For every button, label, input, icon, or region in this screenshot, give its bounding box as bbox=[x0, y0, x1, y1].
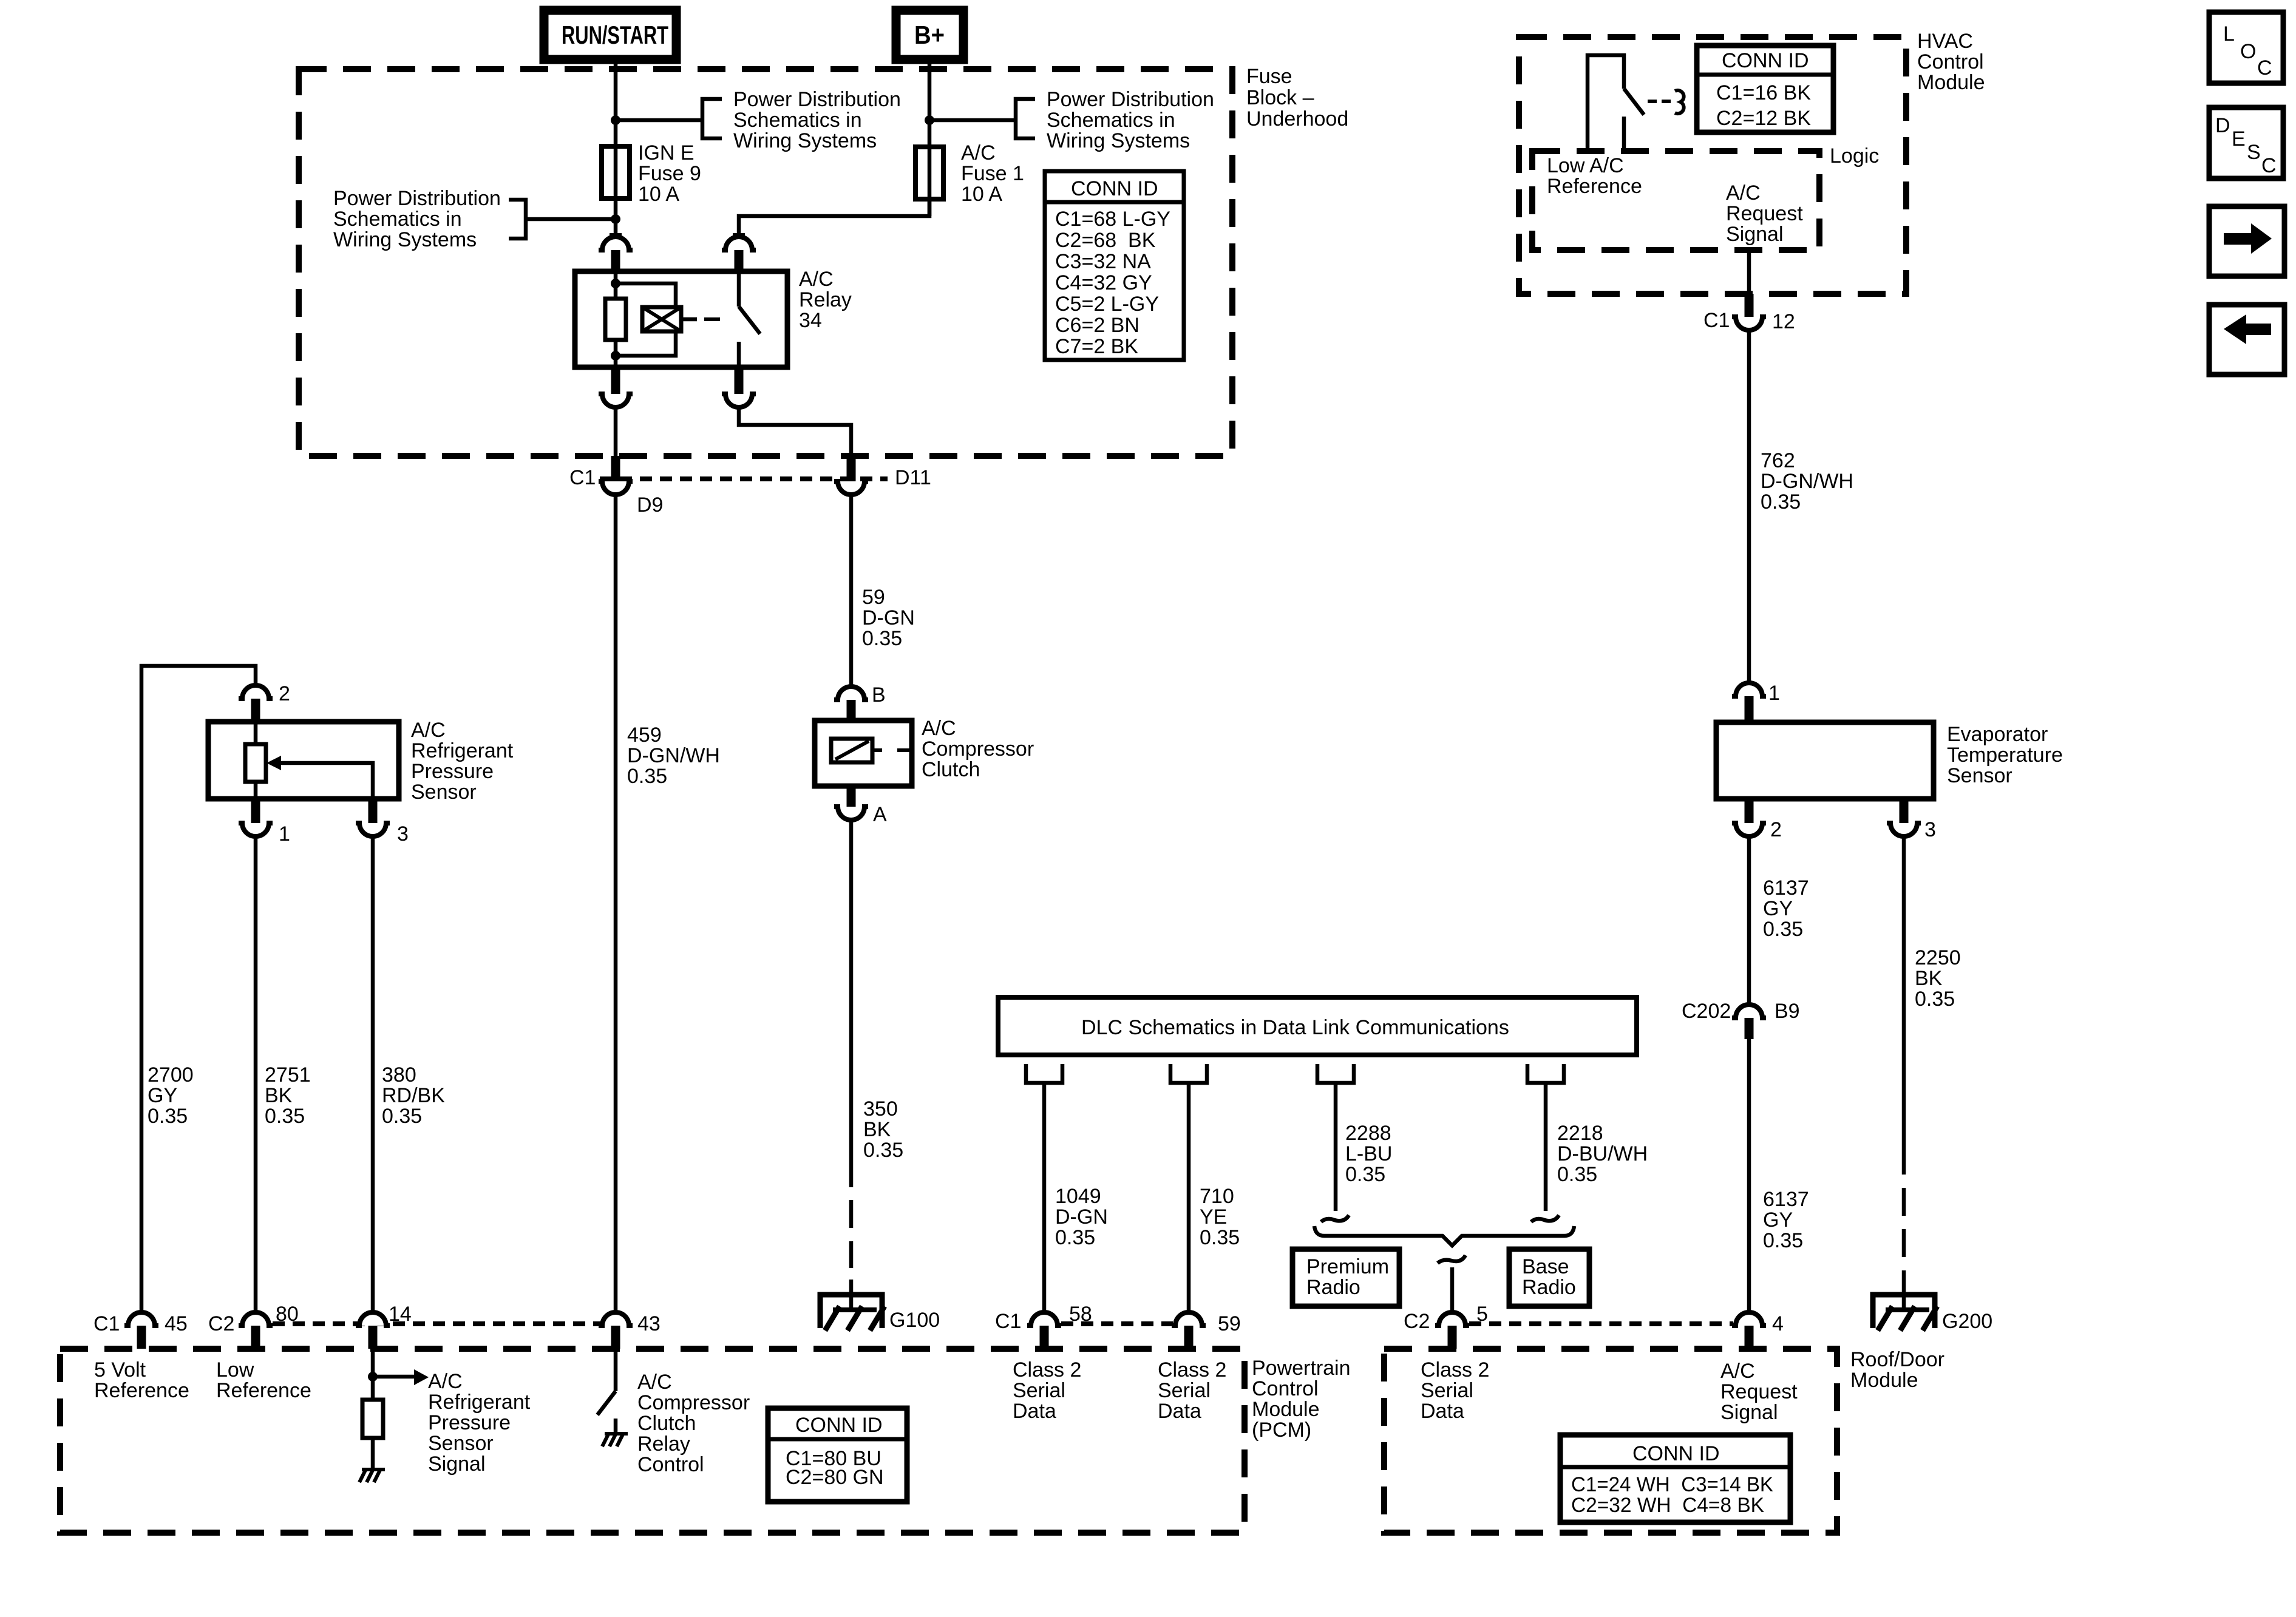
relay pin stub (coil ground out) bbox=[611, 367, 620, 394]
svg-text:Data: Data bbox=[1158, 1400, 1201, 1423]
wire resistor to internal ground bbox=[371, 1438, 375, 1468]
wire branch to power distribution reference (right) bbox=[929, 118, 1016, 123]
svg-text:C2: C2 bbox=[208, 1312, 234, 1335]
connector C1 dotted line bbox=[600, 476, 888, 481]
svg-text:59: 59 bbox=[1218, 1312, 1241, 1335]
roof/door module dashed box bbox=[1384, 1349, 1837, 1533]
wire 350 BK into G100 bbox=[849, 1280, 854, 1310]
clutch coil symbol bbox=[831, 739, 872, 762]
wire splice to roof/door module pin 5 bbox=[1450, 1267, 1455, 1310]
relay actuator link dash bbox=[704, 317, 720, 321]
svg-text:14: 14 bbox=[389, 1303, 412, 1326]
wire 380 RD/BK to PCM pin 14 bbox=[371, 836, 375, 1310]
svg-text:Base: Base bbox=[1522, 1255, 1569, 1278]
wire 59 D-GN to compressor clutch bbox=[849, 494, 854, 685]
pin 59 stub bbox=[1184, 1326, 1194, 1349]
wire 6137 GY to C202 bbox=[1747, 836, 1751, 1003]
pressure sensor signal branch bbox=[281, 763, 373, 799]
svg-text:Data: Data bbox=[1013, 1400, 1056, 1423]
svg-text:Block –: Block – bbox=[1246, 86, 1314, 109]
pin 43 stub bbox=[611, 1326, 620, 1349]
svg-text:0.35: 0.35 bbox=[1763, 1229, 1803, 1252]
switch actuator curl bbox=[1675, 90, 1684, 114]
wire 710 YE to PCM pin 59 bbox=[1187, 1085, 1191, 1310]
svg-text:Schematics in: Schematics in bbox=[333, 208, 462, 231]
wire 2288 L-BU from DLC bbox=[1334, 1085, 1338, 1211]
svg-text:45: 45 bbox=[165, 1312, 188, 1335]
svg-text:A/C: A/C bbox=[637, 1371, 672, 1394]
svg-text:12: 12 bbox=[1772, 310, 1795, 333]
svg-text:Fuse 1: Fuse 1 bbox=[961, 162, 1024, 185]
svg-text:Sensor: Sensor bbox=[411, 781, 477, 804]
DLC stub 2 bbox=[1170, 1064, 1207, 1083]
wire B+ feed to A/C fuse bbox=[928, 59, 932, 216]
svg-text:5 Volt: 5 Volt bbox=[94, 1358, 146, 1381]
svg-text:1: 1 bbox=[1768, 682, 1780, 705]
wire pin 43 internal bbox=[614, 1349, 618, 1391]
svg-text:G100: G100 bbox=[889, 1309, 940, 1332]
svg-text:0.35: 0.35 bbox=[148, 1105, 188, 1128]
svg-text:Module: Module bbox=[1917, 71, 1985, 94]
svg-text:0.35: 0.35 bbox=[1345, 1163, 1385, 1186]
svg-text:GY: GY bbox=[1763, 1209, 1793, 1232]
pressure sensor wiper bottom bbox=[254, 782, 258, 799]
svg-text:Radio: Radio bbox=[1306, 1276, 1360, 1299]
svg-text:Pressure: Pressure bbox=[428, 1411, 511, 1434]
svg-text:Class 2: Class 2 bbox=[1421, 1358, 1489, 1381]
evaporator sensor pin 3 stub bbox=[1900, 799, 1909, 823]
svg-text:Schematics in: Schematics in bbox=[1047, 109, 1175, 132]
svg-text:710: 710 bbox=[1200, 1185, 1234, 1208]
svg-text:Fuse 9: Fuse 9 bbox=[638, 162, 701, 185]
pin 5 stub bbox=[1448, 1326, 1457, 1349]
connector arc relay coil supply bbox=[599, 237, 633, 250]
svg-text:O: O bbox=[2240, 40, 2256, 63]
junction relay coil bottom bbox=[611, 351, 620, 361]
svg-text:D-GN: D-GN bbox=[1055, 1205, 1108, 1229]
svg-text:6137: 6137 bbox=[1763, 876, 1809, 900]
svg-text:380: 380 bbox=[382, 1063, 416, 1086]
base radio box bbox=[1509, 1249, 1589, 1306]
svg-text:GY: GY bbox=[148, 1084, 177, 1107]
pin 80 stub bbox=[251, 1326, 260, 1349]
svg-text:Reference: Reference bbox=[216, 1379, 311, 1402]
svg-text:Reference: Reference bbox=[94, 1379, 189, 1402]
evaporator temperature sensor box bbox=[1716, 722, 1934, 799]
svg-text:1049: 1049 bbox=[1055, 1185, 1101, 1208]
svg-text:10 A: 10 A bbox=[638, 183, 679, 206]
svg-text:C1=24 WH C3=14 BK: C1=24 WH C3=14 BK bbox=[1571, 1473, 1773, 1496]
svg-text:BK: BK bbox=[863, 1118, 891, 1141]
junction on RUN/START feed bbox=[611, 115, 620, 125]
svg-text:2: 2 bbox=[279, 682, 290, 705]
connector arc evaporator sensor pin 3 bbox=[1887, 823, 1921, 836]
svg-text:Refrigerant: Refrigerant bbox=[428, 1391, 531, 1414]
relay pin stub (switch supply) bbox=[735, 250, 744, 271]
svg-text:Compressor: Compressor bbox=[637, 1391, 750, 1414]
connector dotted line PCM C1 (58-59) bbox=[1061, 1321, 1173, 1326]
svg-text:RD/BK: RD/BK bbox=[382, 1084, 445, 1107]
svg-text:5: 5 bbox=[1476, 1303, 1488, 1326]
relay switch blade bbox=[739, 307, 760, 334]
bracket power distribution reference (left) bbox=[509, 200, 526, 239]
junction below IGN E fuse bbox=[611, 214, 620, 224]
svg-text:C2=68 BK: C2=68 BK bbox=[1055, 229, 1156, 252]
connector arc clutch pin A bbox=[834, 807, 868, 820]
wire pin 14 internal bbox=[371, 1349, 375, 1400]
internal ground (pin 14) bbox=[362, 1468, 385, 1471]
svg-text:Clutch: Clutch bbox=[922, 758, 980, 781]
wire 2250 BK dash 2 bbox=[1902, 1229, 1906, 1257]
wire relay coil output to fuse block edge bbox=[614, 407, 618, 456]
svg-text:Schematics in: Schematics in bbox=[733, 109, 862, 132]
wire 762 D-GN/WH to evaporator sensor bbox=[1747, 330, 1751, 682]
connector arc pin 4 bbox=[1732, 1312, 1766, 1326]
svg-text:C1: C1 bbox=[93, 1312, 120, 1335]
connector arc pressure sensor pin 1 bbox=[239, 823, 273, 836]
svg-text:Roof/Door: Roof/Door bbox=[1850, 1348, 1944, 1371]
bracket power distribution reference (right) bbox=[1016, 99, 1035, 138]
relay coil (crossed box) bbox=[642, 307, 681, 331]
premium radio box bbox=[1292, 1249, 1399, 1306]
wire RUN/START feed to IGN E fuse bbox=[614, 59, 618, 235]
sensor signal arrow bbox=[414, 1369, 429, 1385]
fuse block - underhood dashed box bbox=[299, 69, 1232, 456]
svg-text:Power Distribution: Power Distribution bbox=[1047, 88, 1214, 111]
wire 2700 GY to pressure sensor pin 2 bbox=[141, 666, 256, 1310]
svg-text:Signal: Signal bbox=[1720, 1401, 1778, 1424]
svg-text:Reference: Reference bbox=[1547, 175, 1642, 198]
svg-text:0.35: 0.35 bbox=[1915, 988, 1955, 1011]
svg-text:S: S bbox=[2247, 141, 2261, 164]
wire 2751 BK to PCM pin 80 bbox=[254, 836, 258, 1310]
legend DESC box bbox=[2209, 107, 2283, 178]
svg-text:D11: D11 bbox=[895, 466, 931, 489]
svg-text:0.35: 0.35 bbox=[265, 1105, 305, 1128]
svg-text:C1=16 BK: C1=16 BK bbox=[1716, 81, 1811, 104]
pressure sensor wiper top bbox=[254, 722, 258, 744]
svg-text:80: 80 bbox=[276, 1303, 299, 1326]
svg-text:Request: Request bbox=[1726, 202, 1803, 225]
svg-text:0.35: 0.35 bbox=[1557, 1163, 1597, 1186]
wire 459 D-GN/WH to PCM pin 43 bbox=[614, 494, 618, 1310]
svg-text:Powertrain: Powertrain bbox=[1252, 1357, 1351, 1380]
svg-text:Data: Data bbox=[1421, 1400, 1464, 1423]
svg-text:G200: G200 bbox=[1942, 1310, 1992, 1333]
svg-text:1: 1 bbox=[279, 822, 290, 846]
svg-text:0.35: 0.35 bbox=[627, 765, 667, 788]
wire relay coil branch bottom bbox=[616, 331, 676, 356]
pressure sensor pin 3 stub bbox=[369, 799, 378, 823]
svg-text:C3=32 NA: C3=32 NA bbox=[1055, 250, 1151, 273]
svg-text:C202: C202 bbox=[1682, 1000, 1731, 1023]
svg-text:2751: 2751 bbox=[265, 1063, 311, 1086]
svg-text:Evaporator: Evaporator bbox=[1947, 723, 2048, 746]
svg-text:Premium: Premium bbox=[1306, 1255, 1389, 1278]
svg-text:Low A/C: Low A/C bbox=[1547, 154, 1624, 177]
wire branch to power distribution reference (left) bbox=[526, 217, 616, 222]
svg-text:Sensor: Sensor bbox=[428, 1432, 494, 1455]
svg-text:Temperature: Temperature bbox=[1947, 744, 2063, 767]
wire relay coil top bbox=[614, 271, 618, 299]
svg-text:A: A bbox=[873, 803, 887, 826]
ground G200 bbox=[1873, 1295, 1935, 1328]
svg-text:Refrigerant: Refrigerant bbox=[411, 739, 514, 762]
svg-text:C4=32 GY: C4=32 GY bbox=[1055, 271, 1152, 294]
svg-text:CONN ID: CONN ID bbox=[1071, 177, 1158, 200]
svg-text:RUN/START: RUN/START bbox=[562, 21, 668, 49]
junction relay coil top bbox=[611, 279, 620, 288]
relay actuator link bbox=[681, 317, 697, 322]
connector arc evaporator sensor pin 1 bbox=[1732, 683, 1766, 696]
svg-text:C2=80 GN: C2=80 GN bbox=[786, 1466, 884, 1489]
svg-text:C2=12 BK: C2=12 BK bbox=[1716, 107, 1811, 130]
HVAC control module dashed box bbox=[1519, 37, 1906, 294]
svg-text:BK: BK bbox=[1915, 967, 1943, 990]
pin 14 stub bbox=[369, 1326, 378, 1349]
pin 58 stub bbox=[1040, 1326, 1049, 1349]
connector arc pin 5 bbox=[1435, 1312, 1469, 1326]
bracket power distribution reference (top middle) bbox=[702, 99, 722, 138]
A/C compressor clutch box bbox=[815, 720, 912, 786]
pin 4 stub bbox=[1745, 1326, 1754, 1349]
driver switch blade (pin 43) bbox=[597, 1391, 616, 1415]
svg-text:6137: 6137 bbox=[1763, 1188, 1809, 1211]
power tab B+ bbox=[896, 10, 963, 59]
svg-text:IGN E: IGN E bbox=[638, 141, 695, 164]
connector arc evaporator sensor pin 2 bbox=[1732, 823, 1766, 836]
svg-text:762: 762 bbox=[1761, 449, 1795, 472]
svg-text:Clutch: Clutch bbox=[637, 1412, 696, 1435]
wire 2218 D-BU/WH from DLC bbox=[1544, 1085, 1548, 1211]
HVAC A/C switch bbox=[1588, 55, 1624, 149]
connector ID table (fuse block) bbox=[1045, 171, 1184, 360]
svg-text:B9: B9 bbox=[1775, 1000, 1800, 1023]
resistor PCM pull-down bbox=[362, 1400, 383, 1438]
wire relay switch fixed contact bbox=[737, 271, 741, 307]
wire switch to internal ground bbox=[614, 1419, 618, 1432]
svg-text:CONN ID: CONN ID bbox=[1722, 49, 1809, 72]
svg-text:C: C bbox=[2257, 56, 2272, 80]
fuse F1 A/C bbox=[915, 147, 943, 199]
svg-text:D-GN: D-GN bbox=[862, 606, 915, 629]
wire relay switch output contact bbox=[737, 342, 741, 367]
connector ID table (HVAC) bbox=[1697, 46, 1833, 132]
svg-text:HVAC: HVAC bbox=[1917, 30, 1973, 53]
svg-text:DLC Schematics in Data Link Co: DLC Schematics in Data Link Communicatio… bbox=[1081, 1016, 1509, 1039]
svg-text:BK: BK bbox=[265, 1084, 293, 1107]
svg-text:Sensor: Sensor bbox=[1947, 764, 2012, 787]
svg-text:0.35: 0.35 bbox=[863, 1139, 903, 1162]
relay K34 A/C Relay box bbox=[575, 271, 787, 367]
relay pin stub (coil supply) bbox=[611, 250, 620, 271]
svg-text:Wiring Systems: Wiring Systems bbox=[733, 129, 877, 152]
svg-text:Relay: Relay bbox=[637, 1432, 690, 1456]
internal ground (pin 43) bbox=[605, 1432, 628, 1436]
svg-text:0.35: 0.35 bbox=[1200, 1226, 1240, 1249]
svg-text:0.35: 0.35 bbox=[1763, 918, 1803, 941]
connector dotted line PCM C1/C2 bbox=[273, 1321, 600, 1326]
svg-text:D-GN/WH: D-GN/WH bbox=[627, 744, 720, 767]
svg-text:Control: Control bbox=[637, 1453, 704, 1476]
svg-text:350: 350 bbox=[863, 1097, 898, 1120]
stub into C1 pin D11 bbox=[847, 456, 856, 481]
svg-text:Wiring Systems: Wiring Systems bbox=[333, 228, 477, 251]
svg-text:C5=2 L-GY: C5=2 L-GY bbox=[1055, 293, 1159, 316]
pressure sensor pin 1 stub bbox=[251, 799, 260, 823]
wire 2250 BK from evaporator sensor bbox=[1902, 836, 1906, 1175]
wire relay coil branch top bbox=[616, 283, 676, 307]
svg-text:A/C: A/C bbox=[799, 268, 834, 291]
DLC stub 1 bbox=[1026, 1064, 1062, 1083]
svg-text:Low: Low bbox=[216, 1358, 254, 1381]
svg-text:10 A: 10 A bbox=[961, 183, 1002, 206]
svg-text:Radio: Radio bbox=[1522, 1276, 1576, 1299]
relay pin stub (switch out) bbox=[735, 367, 744, 394]
svg-text:34: 34 bbox=[799, 309, 822, 332]
C202 pin B9 stub bbox=[1745, 1018, 1754, 1039]
svg-text:E: E bbox=[2232, 127, 2246, 151]
connector ID table (PCM) bbox=[768, 1408, 907, 1502]
svg-text:459: 459 bbox=[627, 724, 662, 747]
legend back arrow box bbox=[2209, 305, 2284, 375]
connector arc pin 80 bbox=[239, 1312, 273, 1326]
svg-text:0.35: 0.35 bbox=[1055, 1226, 1095, 1249]
svg-text:D: D bbox=[2215, 114, 2230, 137]
svg-text:A/C: A/C bbox=[428, 1370, 463, 1393]
resistor in relay bbox=[605, 299, 626, 340]
connector arc pin 58 bbox=[1027, 1312, 1061, 1326]
splice center hook bbox=[1438, 1255, 1466, 1263]
svg-text:0.35: 0.35 bbox=[382, 1105, 422, 1128]
svg-text:Power Distribution: Power Distribution bbox=[333, 187, 501, 210]
svg-text:C1: C1 bbox=[1703, 309, 1730, 332]
wire 2250 BK into G200 bbox=[1902, 1270, 1906, 1310]
wire to sensor signal arrow bbox=[373, 1375, 414, 1379]
svg-text:Signal: Signal bbox=[1726, 223, 1784, 246]
svg-text:C1=68 L-GY: C1=68 L-GY bbox=[1055, 208, 1170, 231]
svg-text:2250: 2250 bbox=[1915, 946, 1961, 969]
svg-text:C1: C1 bbox=[995, 1310, 1021, 1333]
svg-text:C2=32 WH C4=8 BK: C2=32 WH C4=8 BK bbox=[1571, 1494, 1764, 1517]
svg-text:A/C: A/C bbox=[411, 719, 446, 742]
HVAC logic dashed box bbox=[1532, 151, 1819, 250]
wire 2288 end hook bbox=[1321, 1215, 1349, 1222]
svg-text:Class 2: Class 2 bbox=[1158, 1358, 1226, 1381]
svg-text:Wiring Systems: Wiring Systems bbox=[1047, 129, 1190, 152]
connector arc pressure sensor pin 3 bbox=[356, 823, 390, 836]
svg-text:B: B bbox=[872, 683, 886, 707]
connector ID table (roof/door) bbox=[1560, 1435, 1790, 1522]
svg-text:Serial: Serial bbox=[1013, 1379, 1065, 1402]
HVAC pin 12 stub bbox=[1745, 294, 1754, 317]
DLC stub 3 bbox=[1317, 1064, 1354, 1083]
connector arc pin 45 bbox=[124, 1312, 158, 1326]
evaporator sensor pin 1 stub bbox=[1745, 696, 1754, 722]
svg-text:3: 3 bbox=[1924, 818, 1936, 841]
wire A/C fuse to relay switch bbox=[739, 199, 929, 235]
svg-text:D-BU/WH: D-BU/WH bbox=[1557, 1142, 1648, 1165]
connector C1 pin D11 arc bbox=[834, 481, 868, 495]
svg-text:YE: YE bbox=[1200, 1205, 1227, 1229]
svg-text:C: C bbox=[2261, 154, 2277, 177]
svg-text:(PCM): (PCM) bbox=[1252, 1419, 1311, 1442]
svg-text:C1: C1 bbox=[569, 466, 596, 489]
wire 2218 end hook bbox=[1531, 1215, 1559, 1222]
clutch pin A stub bbox=[847, 786, 856, 807]
splice brace to radios bbox=[1314, 1226, 1574, 1246]
svg-text:D9: D9 bbox=[637, 493, 663, 517]
fuse F9 IGN E bbox=[602, 146, 630, 198]
svg-text:D-GN/WH: D-GN/WH bbox=[1761, 470, 1853, 493]
DLC stub 4 bbox=[1527, 1064, 1564, 1083]
junction on B+ feed bbox=[925, 115, 934, 125]
svg-text:C6=2 BN: C6=2 BN bbox=[1055, 314, 1140, 337]
svg-text:Underhood: Underhood bbox=[1246, 107, 1348, 131]
DLC schematics box bbox=[998, 997, 1637, 1055]
svg-text:CONN ID: CONN ID bbox=[795, 1414, 883, 1437]
svg-text:Serial: Serial bbox=[1421, 1379, 1473, 1402]
svg-text:3: 3 bbox=[397, 822, 409, 846]
wire 2250 BK dash 1 bbox=[1902, 1188, 1906, 1216]
svg-text:Class 2: Class 2 bbox=[1013, 1358, 1081, 1381]
connector arc pin 43 bbox=[599, 1312, 633, 1326]
legend LOC box bbox=[2209, 12, 2283, 83]
pressure sensor resistor bbox=[245, 744, 266, 782]
A/C refrigerant pressure sensor box bbox=[208, 722, 399, 799]
connector arc relay switch output bbox=[722, 394, 756, 407]
svg-text:43: 43 bbox=[637, 1312, 661, 1335]
wire 350 BK dash 1 bbox=[849, 1200, 854, 1228]
wire relay coil bottom bbox=[614, 340, 618, 367]
svg-text:Power Distribution: Power Distribution bbox=[733, 88, 901, 111]
svg-text:2700: 2700 bbox=[148, 1063, 194, 1086]
svg-text:0.35: 0.35 bbox=[1761, 490, 1801, 514]
svg-text:Module: Module bbox=[1252, 1398, 1320, 1421]
svg-text:Logic: Logic bbox=[1830, 144, 1879, 168]
svg-text:Pressure: Pressure bbox=[411, 760, 494, 783]
wire branch to power distribution reference bbox=[616, 118, 702, 123]
evaporator sensor pin 2 stub bbox=[1745, 799, 1754, 823]
svg-text:Request: Request bbox=[1720, 1380, 1798, 1403]
wire 6137 GY to roof/door module pin 4 bbox=[1747, 1039, 1751, 1310]
svg-text:A/C: A/C bbox=[1726, 181, 1761, 205]
connector arc HVAC C1 pin 12 bbox=[1732, 317, 1766, 330]
svg-text:Relay: Relay bbox=[799, 288, 852, 311]
connector arc pin 59 bbox=[1172, 1312, 1206, 1326]
svg-text:Module: Module bbox=[1850, 1369, 1918, 1392]
svg-text:0.35: 0.35 bbox=[862, 627, 902, 650]
svg-text:CONN ID: CONN ID bbox=[1632, 1442, 1720, 1465]
svg-text:C2: C2 bbox=[1404, 1310, 1430, 1333]
terminal tick A/C fuse wire end bbox=[733, 233, 745, 237]
svg-text:2: 2 bbox=[1770, 818, 1782, 841]
connector dotted line roof/door C2 bbox=[1469, 1321, 1733, 1326]
connector C1 pin D9 arc bbox=[599, 481, 633, 495]
svg-text:Signal: Signal bbox=[428, 1453, 486, 1476]
svg-text:A/C: A/C bbox=[1720, 1360, 1755, 1383]
connector arc clutch pin B bbox=[834, 686, 868, 700]
junction pin 14 internal bbox=[368, 1372, 378, 1381]
wire 1049 D-GN to PCM pin 58 bbox=[1042, 1085, 1047, 1310]
wire relay switch output to D11 bbox=[739, 407, 851, 456]
svg-text:Fuse: Fuse bbox=[1246, 65, 1292, 88]
connector arc pin 14 bbox=[356, 1312, 390, 1326]
pressure sensor wiper arrow bbox=[267, 756, 281, 770]
svg-text:Compressor: Compressor bbox=[922, 737, 1034, 761]
svg-text:C7=2 BK: C7=2 BK bbox=[1055, 335, 1138, 358]
powertrain control module dashed box bbox=[60, 1349, 1245, 1533]
